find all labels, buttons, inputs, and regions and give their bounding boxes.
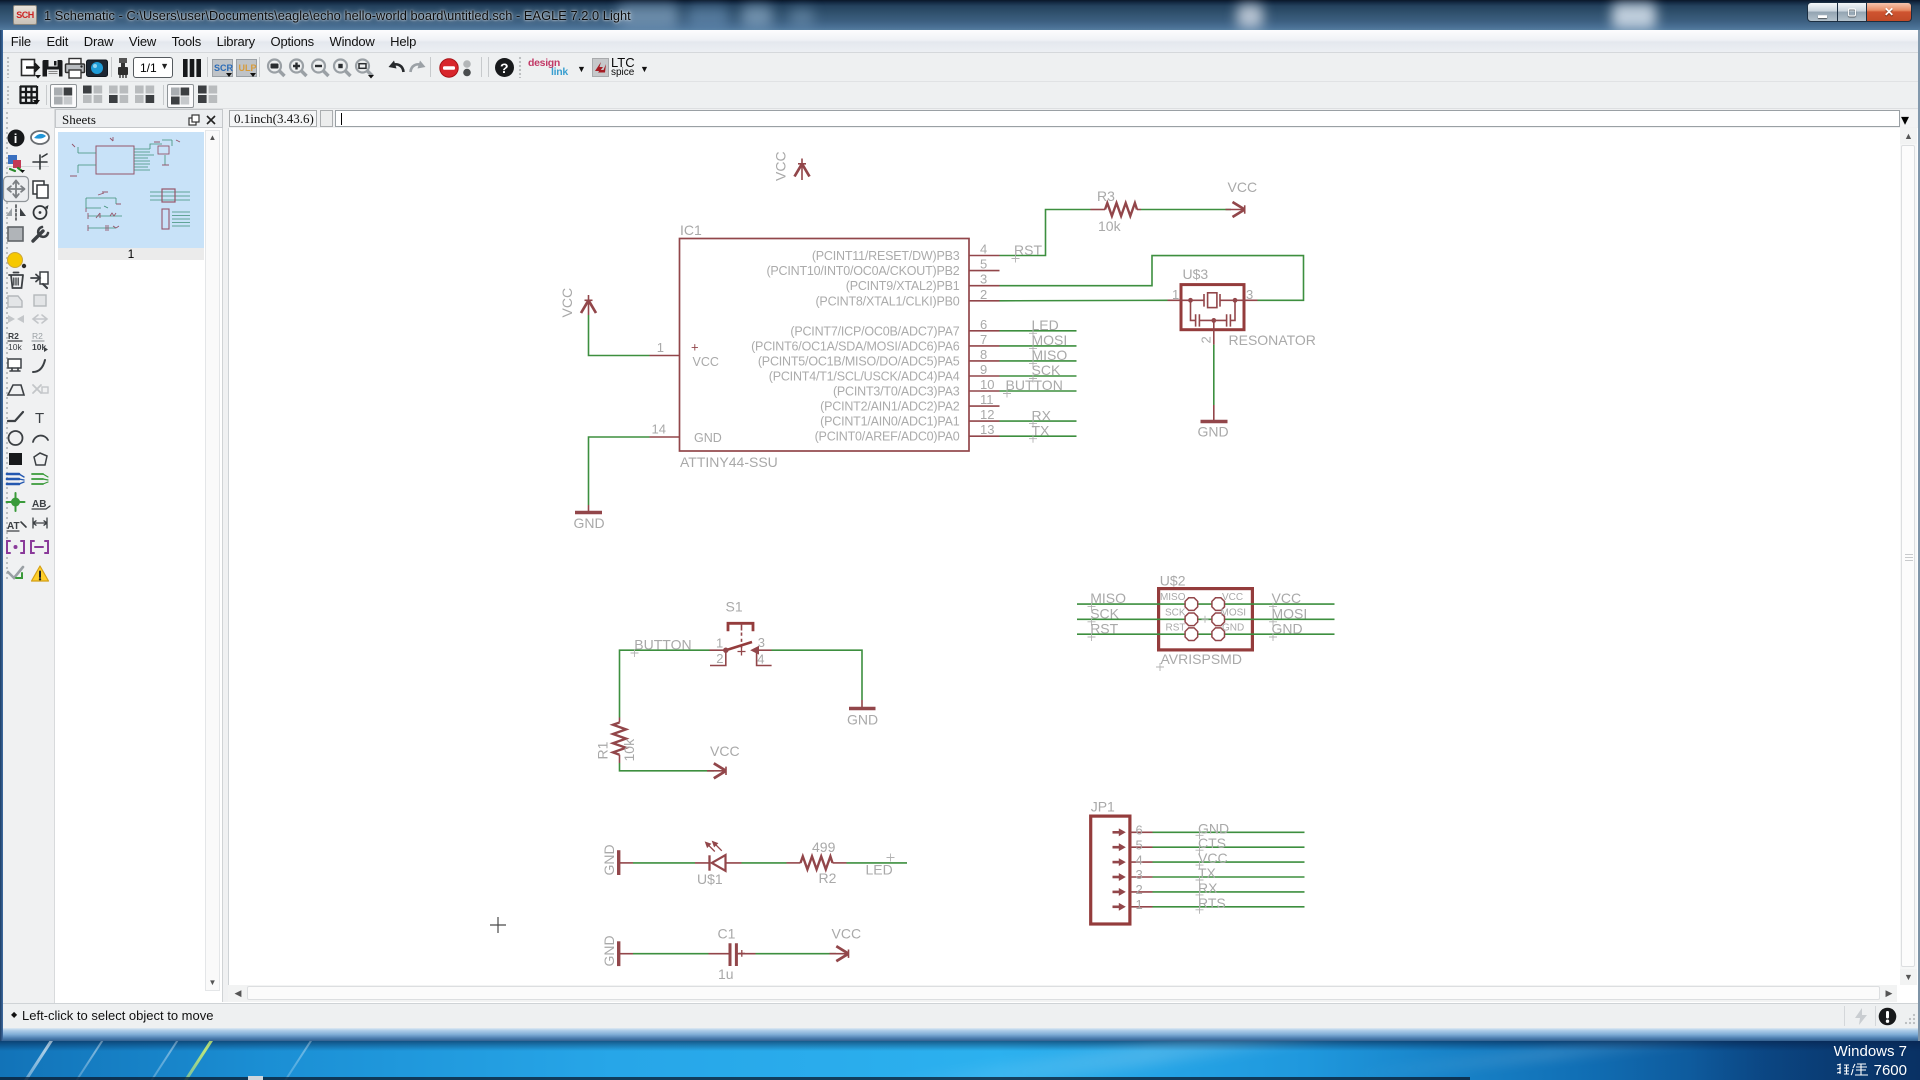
- power VCC (below S1): [707, 763, 726, 778]
- svg-text:C1: C1: [718, 926, 736, 942]
- node TX label (JP1): [1196, 865, 1217, 884]
- svg-text:14: 14: [652, 422, 666, 437]
- svg-text:1: 1: [1136, 897, 1143, 912]
- wire LED net stub: [1000, 330, 1077, 332]
- svg-text:2: 2: [980, 287, 987, 302]
- mirror: [15, 205, 17, 220]
- invoke (grayed): [33, 385, 41, 393]
- svg-text:5: 5: [1136, 837, 1143, 852]
- svg-text:SCK: SCK: [1032, 362, 1061, 378]
- node MOSI label: [1029, 332, 1067, 352]
- svg-text:MOSI: MOSI: [1032, 332, 1068, 348]
- node RTS label (JP1): [1196, 895, 1226, 914]
- node RX label (JP1): [1196, 880, 1219, 899]
- svg-text:10k: 10k: [621, 738, 637, 762]
- wire LED to R2: [742, 862, 787, 864]
- wire VCC to pin 1: [589, 315, 650, 356]
- wrench: [33, 231, 43, 241]
- wire GND net (JP1 pin6): [1153, 831, 1305, 833]
- cursor crosshair: [490, 917, 506, 933]
- node RX label: [1029, 407, 1052, 427]
- resistor R1: [595, 718, 638, 764]
- node BUTTON label: [1003, 377, 1063, 397]
- wire S1 pin3 to GND: [772, 650, 863, 700]
- LED U$1: [695, 842, 742, 888]
- net: [32, 474, 43, 484]
- wire GND to C1: [633, 953, 709, 955]
- svg-text:(PCINT8/XTAL1/CLKI)PB0: (PCINT8/XTAL1/CLKI)PB0: [815, 294, 959, 308]
- wire: [8, 412, 23, 421]
- svg-text:U$1: U$1: [697, 871, 723, 887]
- pin 14 GND of IC1: [650, 422, 722, 446]
- smash: [8, 359, 21, 368]
- svg-text:R2: R2: [32, 331, 43, 341]
- svg-text:VCC: VCC: [1272, 590, 1302, 606]
- svg-text:R1: R1: [595, 741, 611, 759]
- svg-text:VCC: VCC: [1198, 850, 1228, 866]
- wire resonator pin2 to GND: [1213, 345, 1215, 405]
- wire XTAL2 PB1 to resonator pin3: [1000, 256, 1304, 301]
- gateswap (grayed): [8, 315, 24, 323]
- copy: [33, 181, 44, 194]
- svg-text:4: 4: [980, 242, 987, 257]
- svg-text:RX: RX: [1032, 407, 1052, 423]
- polygon: [34, 453, 47, 465]
- bus: [7, 474, 19, 484]
- svg-text:VCC: VCC: [693, 355, 719, 369]
- warning: [32, 566, 49, 581]
- svg-text:(PCINT5/OC1B/MISO/DO/ADC5)PA5: (PCINT5/OC1B/MISO/DO/ADC5)PA5: [758, 354, 960, 368]
- node VCC label (right of U$2): [1269, 590, 1301, 610]
- switch S1: [710, 599, 772, 667]
- wire XTAL1 PB0 to resonator pin1: [1000, 299, 1168, 302]
- svg-text:U$2: U$2: [1160, 573, 1186, 589]
- svg-text:GND: GND: [1272, 621, 1303, 637]
- svg-text:GND: GND: [1222, 622, 1244, 633]
- svg-text:RST: RST: [1090, 621, 1118, 637]
- svg-text:9: 9: [980, 362, 987, 377]
- delete: [9, 275, 23, 288]
- node RST label: [1012, 242, 1043, 263]
- svg-text:(PCINT3/T0/ADC3)PA3: (PCINT3/T0/ADC3)PA3: [833, 385, 960, 399]
- ground GND (below resonator): [1198, 405, 1229, 440]
- wire BUTTON to S1 pin1: [620, 650, 710, 717]
- svg-text:RX: RX: [1198, 880, 1218, 896]
- svg-text:GND: GND: [601, 935, 617, 966]
- svg-text:i: i: [14, 131, 18, 146]
- svg-text:10: 10: [980, 377, 994, 392]
- svg-text:GND: GND: [694, 431, 722, 445]
- svg-text:(PCINT2/AIN1/ADC2)PA2: (PCINT2/AIN1/ADC2)PA2: [820, 400, 960, 414]
- split: [8, 385, 24, 395]
- svg-text:1u: 1u: [718, 966, 734, 982]
- IC1 right pin numbers: [980, 242, 994, 438]
- connector JP1: [1091, 799, 1153, 925]
- wire MISO net stub: [1000, 360, 1077, 362]
- svg-text:3: 3: [758, 635, 765, 650]
- svg-text:RST: RST: [1014, 242, 1042, 258]
- svg-text:5: 5: [980, 257, 987, 272]
- svg-text:RST: RST: [1166, 622, 1186, 633]
- svg-text:10k: 10k: [1098, 218, 1122, 234]
- svg-text:MISO: MISO: [1090, 590, 1126, 606]
- svg-text:RESONATOR: RESONATOR: [1229, 332, 1316, 348]
- svg-text:1: 1: [716, 635, 723, 650]
- wire RX net (JP1 pin2): [1153, 891, 1305, 893]
- svg-text:BUTTON: BUTTON: [634, 637, 691, 653]
- svg-text:MOSI: MOSI: [1221, 607, 1247, 618]
- resistor R3: [1091, 188, 1142, 234]
- wire C1 to VCC: [756, 953, 837, 955]
- wire pin 14 to GND: [589, 437, 650, 505]
- wire CTS net (JP1 pin5): [1153, 846, 1305, 848]
- svg-text:VCC: VCC: [773, 151, 789, 181]
- node SCK label: [1029, 362, 1061, 382]
- svg-text:LED: LED: [866, 862, 893, 878]
- svg-text:SCK: SCK: [1165, 607, 1186, 618]
- svg-text:2: 2: [1199, 336, 1214, 343]
- svg-text:MISO: MISO: [1032, 347, 1068, 363]
- wire VCC net (JP1 pin4): [1153, 861, 1305, 863]
- wire R3 to VCC: [1141, 209, 1231, 211]
- svg-text:(PCINT4/T1/SCL/USCK/ADC4)PA4: (PCINT4/T1/SCL/USCK/ADC4)PA4: [769, 370, 960, 384]
- wire TX net (JP1 pin3): [1153, 876, 1305, 878]
- node MISO label (left of U$2): [1088, 590, 1127, 610]
- svg-text:GND: GND: [574, 515, 605, 531]
- svg-text:RTS: RTS: [1198, 895, 1226, 911]
- ground GND (right of S1): [847, 700, 878, 728]
- rotate: [34, 206, 47, 219]
- IC1 right pin stubs: [969, 256, 1000, 437]
- ground GND (LED row, rotated): [601, 844, 633, 875]
- display layers: [8, 155, 17, 164]
- svg-text:VCC: VCC: [1228, 179, 1258, 195]
- svg-text:IC1: IC1: [680, 222, 702, 238]
- svg-text:2: 2: [716, 651, 723, 666]
- svg-text:GND: GND: [847, 712, 878, 728]
- power VCC (right of C1): [830, 946, 849, 961]
- node MISO label: [1029, 347, 1067, 367]
- svg-text:MISO: MISO: [1160, 592, 1186, 603]
- node SCK label (left of U$2): [1088, 605, 1120, 625]
- svg-text:3: 3: [1136, 867, 1143, 882]
- move (selected): [4, 177, 29, 202]
- svg-text:+: +: [691, 340, 699, 355]
- svg-text:SCR: SCR: [214, 63, 234, 73]
- change (paint): [8, 253, 23, 268]
- node LED label: [1029, 317, 1059, 337]
- svg-text:GND: GND: [601, 844, 617, 875]
- svg-text:12: 12: [980, 407, 994, 422]
- erc open: [7, 541, 24, 553]
- op-amp IC1 ATTINY44-SSU body: [680, 239, 970, 452]
- svg-text:R2: R2: [819, 870, 837, 886]
- svg-text:1: 1: [1172, 287, 1179, 302]
- errors drc: [8, 567, 23, 578]
- group: [8, 227, 23, 241]
- node MOSI label (right of U$2): [1269, 605, 1307, 625]
- wire BUTTON net stub: [1000, 390, 1077, 392]
- resistor R2: [787, 839, 847, 886]
- svg-text:4: 4: [757, 651, 764, 666]
- wire GND to LED: [633, 862, 695, 864]
- svg-text:8: 8: [980, 347, 987, 362]
- svg-text:7: 7: [980, 332, 987, 347]
- arc: [33, 436, 48, 442]
- svg-text:13: 13: [980, 422, 994, 437]
- svg-text:CTS: CTS: [1198, 835, 1226, 851]
- svg-text:6: 6: [1136, 823, 1143, 838]
- svg-text:2: 2: [1136, 882, 1143, 897]
- svg-text:ULP: ULP: [239, 63, 257, 73]
- dimension: [33, 518, 47, 528]
- IC1 pin names: [751, 249, 960, 444]
- svg-text:LED: LED: [1032, 317, 1059, 333]
- svg-text:11: 11: [980, 392, 994, 407]
- wire R1 to VCC: [620, 763, 715, 771]
- pin 1 VCC of IC1: [650, 340, 719, 370]
- svg-text:GND: GND: [1198, 424, 1229, 440]
- svg-text:BUTTON: BUTTON: [1006, 377, 1063, 393]
- svg-text:MOSI: MOSI: [1272, 605, 1308, 621]
- svg-text:SCK: SCK: [1090, 605, 1119, 621]
- node LED net label (right of R2): [866, 854, 895, 878]
- resonator U$3: [1168, 266, 1316, 348]
- pinswap: [40, 272, 48, 284]
- circle: [9, 431, 23, 445]
- svg-text:3: 3: [1246, 287, 1253, 302]
- wire R2 to LED net: [847, 862, 908, 864]
- power VCC (left of IC1): [581, 295, 596, 315]
- capacitor C1: [709, 926, 756, 983]
- node BUTTON label (at S1): [631, 637, 692, 658]
- wire SCK net stub: [1000, 375, 1077, 377]
- connector U$2 AVRISPSMD: [1077, 573, 1335, 672]
- svg-text:TX: TX: [1032, 422, 1051, 438]
- svg-text:AT: AT: [7, 521, 20, 532]
- rect: [9, 453, 22, 465]
- svg-text:3: 3: [980, 272, 987, 287]
- svg-text:AVRISPSMD: AVRISPSMD: [1161, 651, 1242, 667]
- svg-text:(PCINT0/AREF/ADC0)PA0: (PCINT0/AREF/ADC0)PA0: [815, 430, 960, 444]
- junction: [11, 498, 20, 507]
- svg-text:6: 6: [980, 317, 987, 332]
- svg-text:R3: R3: [1097, 188, 1115, 204]
- svg-text:VCC: VCC: [710, 743, 740, 759]
- wire TX net stub: [1000, 435, 1077, 437]
- svg-text:VCC: VCC: [1222, 592, 1243, 603]
- svg-text:R2: R2: [8, 331, 19, 341]
- node GND label (right of U$2): [1269, 621, 1303, 641]
- svg-text:10k: 10k: [8, 342, 22, 352]
- svg-text:4: 4: [1136, 852, 1143, 867]
- wire RTS net (JP1 pin1): [1153, 906, 1305, 908]
- svg-text:(PCINT1/AIN0/ADC1)PA1: (PCINT1/AIN0/ADC1)PA1: [820, 415, 960, 429]
- svg-text:1: 1: [657, 340, 664, 355]
- node RST label (left of U$2): [1088, 621, 1119, 641]
- desktop wallpaper strip: [0, 1028, 1920, 1041]
- wire RST net: [1000, 210, 1091, 256]
- ground GND (below IC1): [574, 505, 605, 531]
- svg-text:T: T: [35, 410, 44, 427]
- svg-text:(PCINT7/ICP/OC0B/ADC7)PA7: (PCINT7/ICP/OC0B/ADC7)PA7: [790, 324, 959, 338]
- svg-text:(PCINT11/RESET/DW)PB3: (PCINT11/RESET/DW)PB3: [812, 249, 960, 263]
- mark: [33, 155, 47, 169]
- svg-text:499: 499: [812, 839, 836, 855]
- svg-text:ATTINY44-SSU: ATTINY44-SSU: [680, 454, 778, 470]
- power VCC (right of R3): [1226, 202, 1246, 217]
- ground GND (C1 row, rotated): [601, 935, 633, 966]
- node VCC label (JP1): [1196, 850, 1228, 869]
- node TX label: [1029, 422, 1050, 442]
- svg-text:JP1: JP1: [1091, 799, 1115, 815]
- info: [8, 130, 25, 147]
- svg-text:?: ?: [500, 60, 509, 76]
- svg-text:VCC: VCC: [832, 926, 862, 942]
- power VCC (top, net to IC AREF area): [795, 159, 810, 181]
- svg-text:VCC: VCC: [559, 288, 575, 318]
- wire RX net stub: [1000, 420, 1077, 422]
- replace (grayed): [8, 296, 22, 307]
- node CTS label (JP1): [1196, 835, 1227, 854]
- svg-text:(PCINT6/OC1A/SDA/MOSI/ADC6)PA6: (PCINT6/OC1A/SDA/MOSI/ADC6)PA6: [751, 339, 960, 353]
- erc closed: [31, 541, 48, 553]
- svg-text:(PCINT10/INT0/OC0A/CKOUT)PB2: (PCINT10/INT0/OC0A/CKOUT)PB2: [766, 264, 959, 278]
- svg-text:S1: S1: [726, 599, 743, 615]
- show: [31, 131, 49, 144]
- svg-text:GND: GND: [1198, 820, 1229, 836]
- miter: [33, 360, 45, 372]
- svg-text:U$3: U$3: [1183, 266, 1209, 282]
- node GND label (JP1): [1196, 820, 1230, 839]
- svg-text:(PCINT9/XTAL2)PB1: (PCINT9/XTAL2)PB1: [846, 279, 960, 293]
- svg-text:AB: AB: [32, 499, 46, 510]
- svg-text:TX: TX: [1198, 865, 1217, 881]
- wire MOSI net stub: [1000, 345, 1077, 347]
